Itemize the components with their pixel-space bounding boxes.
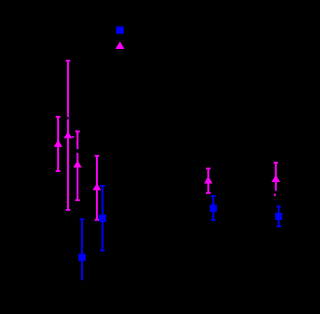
errorbar B3 (blue square point 3)	[210, 195, 217, 221]
errorbar M3 (magenta triangle point 3, stem gap at y~151)	[73, 131, 82, 202]
errorbar M4 (magenta triangle point 4)	[93, 155, 102, 221]
errorbar M1 (magenta triangle point 1)	[54, 116, 63, 172]
errorbar M5 (magenta triangle point 5)	[204, 168, 213, 194]
errorbar B4 (blue square point 4)	[275, 206, 282, 228]
legend marker: magenta triangle series	[115, 41, 124, 49]
errorbar B1 (blue square point 1, bottom clipped no cap)	[78, 218, 85, 280]
legend marker: blue square series	[116, 26, 123, 33]
errorbar B2 (blue square point 2)	[99, 185, 106, 251]
errorbar M6 (magenta triangle point 6, stem ends early + dot fragment)	[272, 162, 281, 196]
errorbar M2 (magenta triangle point 2, tall bar with black notch)	[64, 60, 75, 211]
